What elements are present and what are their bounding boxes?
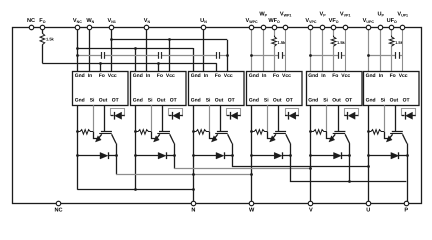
wire emitter-left vertical cell 1 <box>77 105 79 190</box>
wire P-input to U6 In <box>380 28 382 72</box>
node P bottom <box>404 201 409 206</box>
wire Q3 collector to U <box>233 144 369 167</box>
svg-text:Si: Si <box>148 98 153 104</box>
wire Fo bus <box>42 63 216 65</box>
resistor 1.5k on FO line group 2 <box>333 28 335 37</box>
svg-text:OT: OT <box>403 98 410 104</box>
IC U1 gate driver block <box>73 72 129 106</box>
svg-text:VWP1: VWP1 <box>280 12 292 18</box>
node U bottom <box>366 201 371 206</box>
resistor gate R1 <box>77 130 93 135</box>
svg-text:V: V <box>309 207 313 213</box>
wire P-input to U4 In <box>263 28 265 72</box>
node WN <box>87 25 92 30</box>
svg-text:In: In <box>204 73 208 79</box>
wire Si sense stub cell 6 <box>384 105 386 132</box>
svg-text:VVP1: VVP1 <box>340 12 351 18</box>
svg-text:VUPC: VUPC <box>363 18 375 24</box>
svg-text:Gnd: Gnd <box>191 98 201 104</box>
svg-text:FO: FO <box>39 18 45 24</box>
svg-text:OT: OT <box>112 98 119 104</box>
capacitor C5 <box>338 52 340 59</box>
svg-text:1.5k: 1.5k <box>278 40 287 45</box>
svg-text:Si: Si <box>381 98 386 104</box>
diode D6b on emitter line <box>368 152 407 159</box>
svg-text:Gnd: Gnd <box>366 98 376 104</box>
node WFO <box>272 25 277 30</box>
svg-text:WFO: WFO <box>268 18 280 24</box>
svg-text:Out: Out <box>332 98 341 104</box>
node VVP1 <box>343 25 348 30</box>
diode D2b on emitter line <box>136 152 175 159</box>
node VN1 <box>109 25 114 30</box>
node VUPC <box>366 25 371 30</box>
svg-text:Gnd: Gnd <box>75 98 85 104</box>
resistor gate R4 <box>252 130 268 135</box>
wire sense jog cell 6 <box>385 132 389 139</box>
wire V*PC to U4 Gnd <box>251 28 253 72</box>
svg-text:OT: OT <box>345 98 352 104</box>
svg-text:In: In <box>88 73 92 79</box>
node UP <box>378 25 383 30</box>
capacitor C6 <box>395 52 397 59</box>
svg-text:N: N <box>191 207 195 213</box>
wire Vcc bus N-side <box>112 39 228 41</box>
wire cap rail group 2 <box>311 55 339 57</box>
svg-text:VVPC: VVPC <box>305 18 317 24</box>
svg-text:Out: Out <box>99 98 108 104</box>
svg-text:Vcc: Vcc <box>108 73 117 79</box>
node NC top <box>29 25 34 30</box>
svg-text:Vcc: Vcc <box>341 73 350 79</box>
svg-text:In: In <box>379 73 383 79</box>
svg-text:In: In <box>321 73 325 79</box>
resistor gate R5 <box>311 130 327 135</box>
svg-text:Vcc: Vcc <box>166 73 175 79</box>
transistor Q2 IGBT <box>154 105 175 143</box>
node VUP1 <box>400 25 405 30</box>
svg-text:Out: Out <box>157 98 166 104</box>
svg-text:Gnd: Gnd <box>308 73 318 79</box>
node VP <box>320 25 325 30</box>
svg-text:Fo: Fo <box>99 73 105 79</box>
transistor Q3 IGBT <box>211 105 232 143</box>
node WP <box>261 25 266 30</box>
svg-text:OT: OT <box>228 98 235 104</box>
svg-text:VN1: VN1 <box>108 18 116 24</box>
wire sense jog cell 3 <box>210 132 214 139</box>
diode D2a freewheel <box>169 109 183 120</box>
diode D4a freewheel <box>285 109 299 120</box>
transistor Q6 IGBT <box>386 105 407 143</box>
IC U4 gate driver block <box>247 72 303 106</box>
svg-text:Gnd: Gnd <box>191 73 201 79</box>
svg-text:Vcc: Vcc <box>282 73 291 79</box>
wire V*P1 to U6 Vcc <box>402 28 404 72</box>
transistor Q1 IGBT <box>95 105 116 143</box>
wire emitter-left vertical cell 3 <box>193 105 195 190</box>
svg-text:Fo: Fo <box>215 73 221 79</box>
svg-text:Gnd: Gnd <box>308 98 318 104</box>
wire emitter-left vertical cell 4 <box>251 105 253 203</box>
wire Si sense stub cell 5 <box>326 105 328 132</box>
node W bottom <box>249 201 254 206</box>
wire Q6 collector to P <box>407 144 409 204</box>
IC U5 gate driver block <box>307 72 363 106</box>
wire N pin vertical <box>193 190 195 203</box>
svg-text:NC: NC <box>54 207 62 213</box>
wire sense jog cell 2 <box>152 132 156 139</box>
wire cap rail N-side <box>77 55 101 57</box>
svg-text:Si: Si <box>90 98 95 104</box>
capacitor C1 <box>101 52 103 59</box>
wire WN to U1 In <box>89 28 91 72</box>
capacitor C4 <box>278 52 280 59</box>
diode D1a freewheel <box>111 109 125 120</box>
svg-text:UP: UP <box>377 12 384 18</box>
svg-text:Vcc: Vcc <box>399 73 408 79</box>
svg-text:VUP1: VUP1 <box>397 12 408 18</box>
wire Q5 collector stub <box>349 144 351 182</box>
node UN <box>201 25 206 30</box>
svg-text:VP: VP <box>320 12 327 18</box>
resistor 1.5k on FO line group 1 <box>274 28 276 37</box>
svg-text:OT: OT <box>286 98 293 104</box>
svg-text:Gnd: Gnd <box>249 73 259 79</box>
wire sense jog cell 5 <box>327 132 332 139</box>
svg-text:Out: Out <box>273 98 282 104</box>
wire Q4 collector to P bus <box>291 144 407 182</box>
svg-text:Gnd: Gnd <box>75 73 85 79</box>
wire P-input to U5 In <box>322 28 324 72</box>
svg-text:Fo: Fo <box>390 73 396 79</box>
resistor 1.5k on FO line group 3 <box>391 28 393 37</box>
wire Si sense stub cell 1 <box>93 105 95 132</box>
wire sense jog cell 4 <box>268 132 272 139</box>
wire UN to U3 In <box>203 28 205 72</box>
node N bottom <box>191 201 196 206</box>
node VVPC <box>308 25 313 30</box>
node VWPC <box>249 25 254 30</box>
svg-text:Vcc: Vcc <box>224 73 233 79</box>
svg-text:Si: Si <box>206 98 211 104</box>
diode D4b on emitter line <box>252 152 291 159</box>
svg-text:W: W <box>249 207 255 213</box>
wire Q1 collector to W <box>116 144 118 175</box>
svg-text:Gnd: Gnd <box>133 73 143 79</box>
svg-text:WN: WN <box>86 18 94 24</box>
wire Si sense stub cell 2 <box>151 105 153 132</box>
svg-text:P: P <box>404 207 408 213</box>
wire V*P1 to U4 Vcc <box>285 28 287 72</box>
wire V*PC to U6 Gnd <box>368 28 370 72</box>
svg-text:1.5k: 1.5k <box>337 40 346 45</box>
svg-text:VN: VN <box>144 18 151 24</box>
svg-text:Fo: Fo <box>157 73 163 79</box>
node Fo <box>40 25 45 30</box>
wire V*P1 to U5 Vcc <box>345 28 347 72</box>
svg-text:WP: WP <box>259 12 267 18</box>
wire Si sense stub cell 4 <box>267 105 269 132</box>
wire N emitter bus <box>77 189 193 191</box>
wire VN1 to U1 Vcc <box>111 28 113 72</box>
node VN <box>144 25 149 30</box>
IC U2 gate driver block <box>131 72 187 106</box>
wire VNC to U1 Gnd <box>77 28 79 72</box>
transistor Q4 IGBT <box>270 105 291 143</box>
svg-text:Gnd: Gnd <box>366 73 376 79</box>
svg-text:VFO: VFO <box>329 18 339 24</box>
svg-text:UN: UN <box>200 18 207 24</box>
wire V*PC to U5 Gnd <box>310 28 312 72</box>
resistor gate R6 <box>368 130 384 135</box>
node V bottom <box>308 201 313 206</box>
node VFO <box>331 25 336 30</box>
svg-text:Gnd: Gnd <box>249 98 259 104</box>
wire sense jog cell 1 <box>94 132 98 139</box>
diode D5b on emitter line <box>311 152 350 159</box>
wire VN to U2 In <box>146 28 148 72</box>
svg-text:U: U <box>366 207 370 213</box>
node NC bottom <box>56 201 61 206</box>
svg-text:Si: Si <box>323 98 328 104</box>
svg-text:NC: NC <box>27 18 35 24</box>
svg-text:In: In <box>146 73 150 79</box>
svg-text:VWPC: VWPC <box>246 18 259 24</box>
svg-text:UFO: UFO <box>387 18 397 24</box>
svg-text:1.5k: 1.5k <box>46 36 55 41</box>
diode D3a freewheel <box>227 109 241 120</box>
capacitor C3 <box>216 52 218 59</box>
wire cap rail group 1 <box>252 55 279 57</box>
node UFO <box>389 25 394 30</box>
resistor gate R3 <box>193 130 209 135</box>
node VWP1 <box>283 25 288 30</box>
wire emitter-left vertical cell 2 <box>135 105 137 190</box>
svg-text:Si: Si <box>264 98 269 104</box>
diode D6a freewheel <box>402 109 416 120</box>
node VNC <box>75 25 80 30</box>
diode D5a freewheel <box>344 109 358 120</box>
svg-text:Out: Out <box>390 98 399 104</box>
diode D1b on emitter line <box>77 152 116 159</box>
svg-text:Out: Out <box>215 98 224 104</box>
IC U3 gate driver block <box>189 72 245 106</box>
wire emitter-left vertical cell 5 <box>310 105 312 203</box>
transistor Q5 IGBT <box>329 105 350 143</box>
svg-text:In: In <box>262 73 266 79</box>
svg-text:Fo: Fo <box>332 73 338 79</box>
wire cap rail group 3 <box>368 55 396 57</box>
svg-text:Fo: Fo <box>273 73 279 79</box>
svg-text:VNC: VNC <box>73 18 82 24</box>
IC U6 gate driver block <box>364 72 420 106</box>
diode D3b on emitter line <box>193 152 232 159</box>
wire emitter-left vertical cell 6 <box>368 105 370 203</box>
wire Gnd bus N-side <box>77 48 193 50</box>
svg-text:OT: OT <box>170 98 177 104</box>
wire Si sense stub cell 3 <box>209 105 211 132</box>
resistor 1.5k on Fo line <box>42 28 44 34</box>
package outline <box>13 28 422 204</box>
capacitor C2 <box>158 52 160 59</box>
svg-text:Gnd: Gnd <box>133 98 143 104</box>
wire Q2 collector to V <box>174 144 176 169</box>
resistor gate R2 <box>136 130 152 135</box>
